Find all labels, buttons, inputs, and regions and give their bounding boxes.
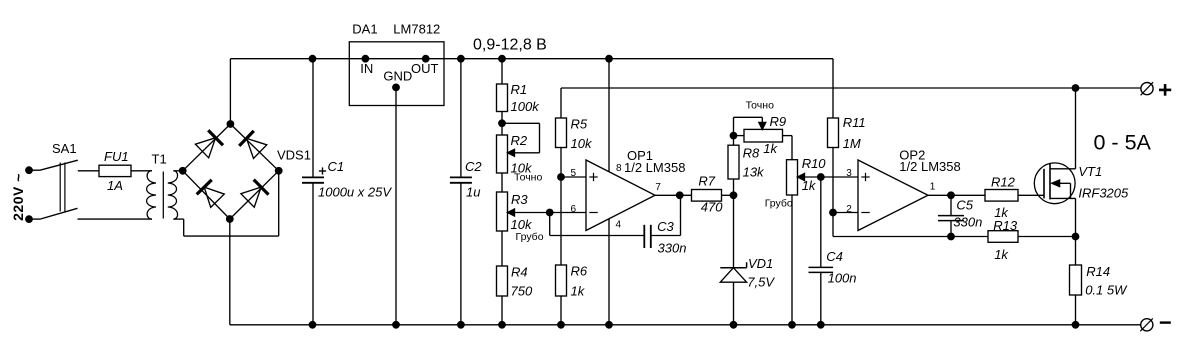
- node R4 bottom: [498, 321, 506, 329]
- op-amp OP2: [858, 160, 928, 231]
- svg-text:R8: R8: [743, 145, 760, 160]
- label R12: [991, 175, 1016, 190]
- pin 4: [616, 219, 622, 230]
- node R7 R8 junction: [730, 191, 738, 199]
- wire rail to R1: [501, 59, 503, 84]
- value 10k R2: [511, 160, 533, 175]
- wire bottom rail: [230, 324, 1141, 326]
- label output voltage: [473, 37, 547, 54]
- svg-text:0 - 5A: 0 - 5A: [1094, 131, 1152, 155]
- resistor R14: [1070, 265, 1082, 295]
- label FU1: [104, 149, 129, 164]
- svg-text:100k: 100k: [511, 99, 541, 114]
- label R1: [511, 82, 528, 97]
- svg-text:C3: C3: [657, 219, 674, 234]
- pin OUT: [411, 55, 439, 76]
- svg-text:5: 5: [571, 168, 577, 179]
- terminal plus: [1141, 82, 1172, 96]
- svg-text:13k: 13k: [743, 165, 765, 180]
- node R8 R9 junction: [730, 132, 738, 140]
- label C4: [826, 249, 843, 264]
- label minus OP2: [861, 212, 869, 214]
- label VT1: [1078, 164, 1102, 179]
- value 1000u x 25V: [318, 184, 392, 199]
- label OP2 half LM358: [899, 159, 960, 174]
- svg-text:750: 750: [511, 283, 533, 298]
- label OP1: [627, 148, 653, 163]
- wire R8 leads: [733, 117, 735, 195]
- svg-text:10k: 10k: [571, 136, 593, 151]
- svg-text:7,5V: 7,5V: [747, 274, 775, 289]
- svg-text:1000u x 25V: 1000u x 25V: [318, 184, 392, 199]
- value 1u: [466, 184, 480, 199]
- op-amp U1 LM7812 box: [349, 42, 444, 106]
- node C1 top: [309, 55, 317, 63]
- diode bridge top-left: [195, 130, 223, 158]
- svg-text:Грубо: Грубо: [516, 231, 544, 243]
- capacitor C5: [938, 195, 964, 236]
- pin IN: [360, 55, 373, 76]
- transistor VT1: [1034, 163, 1075, 204]
- node C4 bottom: [817, 321, 825, 329]
- svg-text:C2: C2: [465, 159, 482, 174]
- wire fuse to transformer: [131, 170, 152, 172]
- label R7: [698, 173, 715, 188]
- label C3: [657, 219, 674, 234]
- value 7,5V: [747, 274, 775, 289]
- node OP2 output: [947, 191, 955, 199]
- value 1M: [843, 136, 861, 151]
- svg-text:R7: R7: [698, 173, 715, 188]
- svg-text:IRF3205: IRF3205: [1078, 186, 1129, 201]
- resistor R7: [692, 190, 722, 202]
- label C1: [328, 159, 345, 174]
- wire OP2 output: [928, 194, 985, 196]
- wire R1 to R2: [501, 112, 503, 136]
- node R1 top: [498, 55, 506, 63]
- wire switch bottom to transformer: [78, 218, 153, 220]
- svg-text:1k: 1k: [763, 141, 778, 156]
- resistor R4: [497, 266, 508, 296]
- wire pin2: [833, 212, 858, 214]
- value 10k R5: [571, 136, 593, 151]
- svg-text:OUT: OUT: [411, 61, 439, 76]
- svg-text:R4: R4: [511, 265, 528, 280]
- potentiometer R3: [497, 192, 515, 231]
- wire R14 to rail: [1075, 295, 1077, 325]
- capacitor C1: [302, 59, 324, 325]
- svg-text:IN: IN: [360, 61, 373, 76]
- label R4: [511, 265, 528, 280]
- svg-text:3: 3: [846, 168, 852, 179]
- label R9: [770, 114, 787, 129]
- svg-text:VD1: VD1: [748, 256, 773, 271]
- node pin4 bottom: [605, 321, 613, 329]
- value 0.1 5W: [1085, 282, 1128, 297]
- value 100n: [828, 270, 857, 285]
- value 1k R12: [994, 205, 1009, 220]
- value 330n C3: [658, 241, 687, 256]
- label OP2: [899, 148, 925, 163]
- svg-text:C5: C5: [956, 198, 973, 213]
- label T1: [152, 152, 167, 167]
- node OP1 output: [676, 191, 684, 199]
- label LM7812: [393, 22, 440, 37]
- label R2: [511, 133, 528, 148]
- node C2 bottom: [457, 321, 465, 329]
- wire R10 bottom to rail: [791, 195, 793, 325]
- wire R2 to R3: [501, 173, 503, 192]
- label R6: [571, 264, 588, 279]
- svg-text:1M: 1M: [843, 136, 861, 151]
- value IRF3205: [1078, 186, 1129, 201]
- transformer T1 primary: [147, 171, 156, 219]
- wire secondary bottom jog: [173, 219, 278, 236]
- node pin6 junction: [546, 209, 554, 217]
- label Tochno R2: [514, 172, 542, 184]
- resistor R8: [728, 145, 739, 179]
- svg-text:1u: 1u: [466, 184, 480, 199]
- capacitor C3: [644, 195, 680, 248]
- pin 8: [616, 163, 622, 174]
- wire VD1 to rail: [733, 282, 735, 325]
- value 100k: [511, 99, 541, 114]
- wire junction to VD1: [733, 195, 735, 267]
- svg-text:R11: R11: [843, 115, 866, 130]
- wire R3 wiper to pin6: [508, 212, 587, 214]
- value 1k R9: [763, 141, 778, 156]
- transformer T1 secondary: [168, 171, 178, 219]
- label DA1: [352, 22, 377, 37]
- wire OP1 output: [655, 194, 692, 196]
- svg-text:C1: C1: [328, 159, 345, 174]
- label Grubo R3: [516, 231, 544, 243]
- label Grubo R10: [765, 197, 793, 209]
- transformer T1 core: [162, 172, 164, 219]
- svg-text:1: 1: [930, 182, 936, 193]
- capacitor C2: [450, 59, 472, 325]
- label VDS1: [277, 148, 311, 163]
- label SA1: [52, 141, 77, 156]
- svg-text:8: 8: [616, 163, 622, 174]
- wire R11 to pin2 and feedback: [833, 148, 988, 237]
- terminal minus: [1140, 318, 1171, 331]
- resistor R5: [556, 118, 567, 148]
- wire R10 wiper to pin3: [805, 176, 859, 178]
- node GND bottom: [392, 321, 400, 329]
- node C5 bottom: [947, 233, 955, 241]
- wire R4 to rail: [501, 296, 503, 325]
- node mains terminal top: [25, 166, 33, 174]
- label output current: [1094, 131, 1152, 155]
- svg-text:1k: 1k: [994, 247, 1009, 262]
- node VD1 bottom: [730, 321, 738, 329]
- node bridge bottom: [226, 215, 234, 223]
- svg-text:Точно: Точно: [514, 172, 542, 184]
- wire drain to plus rail: [1075, 88, 1077, 169]
- wire R3 to R4: [501, 231, 503, 266]
- svg-text:1k: 1k: [571, 283, 586, 298]
- pin 8 wire: [608, 59, 610, 172]
- label R13: [993, 218, 1018, 233]
- node bridge top: [227, 120, 235, 128]
- svg-text:1/2 LM358: 1/2 LM358: [624, 160, 685, 175]
- node C1 bottom: [309, 321, 317, 329]
- capacitor C4: [809, 177, 834, 325]
- node bridge left: [179, 167, 187, 175]
- svg-text:R9: R9: [770, 114, 787, 129]
- wire source down: [1075, 198, 1077, 265]
- wire top rail: [230, 58, 833, 60]
- wire R12 to gate: [1018, 194, 1044, 196]
- node 220V mains input label: [10, 173, 26, 221]
- svg-text:R2: R2: [511, 133, 528, 148]
- svg-text:GND: GND: [383, 68, 412, 83]
- label C2: [465, 159, 482, 174]
- op-amp OP1: [586, 160, 655, 231]
- svg-text:10k: 10k: [511, 217, 533, 232]
- pin 6: [571, 204, 577, 215]
- svg-text:R12: R12: [991, 175, 1016, 190]
- pin 7: [655, 182, 661, 193]
- svg-text:FU1: FU1: [104, 149, 129, 164]
- wire R6 to rail: [560, 296, 562, 325]
- pin 2: [846, 204, 852, 215]
- diode bridge top-right: [239, 131, 267, 159]
- node pin5 junction: [557, 173, 565, 181]
- node pin2 junction: [829, 209, 837, 217]
- label R8: [743, 145, 760, 160]
- label R14: [1086, 264, 1110, 279]
- diode bridge bottom-left: [197, 180, 225, 208]
- node R14 bottom: [1072, 321, 1080, 329]
- node drain rail: [1072, 84, 1080, 92]
- wire bridge diagonal top-right: [230, 124, 278, 171]
- resistor R6: [556, 265, 567, 296]
- potentiometer R9: [734, 117, 783, 142]
- label OP1 half LM358: [624, 160, 685, 175]
- label R5: [571, 117, 588, 132]
- label C5: [956, 198, 973, 213]
- label C1 plus: [319, 167, 326, 174]
- svg-text:6: 6: [571, 204, 577, 215]
- wire GND to bottom rail: [395, 87, 397, 324]
- svg-text:2: 2: [846, 204, 852, 215]
- node bridge right: [275, 167, 283, 175]
- node source R13 R14: [1072, 233, 1080, 241]
- value 330n C5: [953, 215, 982, 230]
- svg-text:220V ~: 220V ~: [10, 173, 26, 221]
- wire switch to fuse: [78, 170, 99, 172]
- label VD1: [748, 256, 773, 271]
- label minus OP1: [589, 212, 597, 214]
- zener VD1: [720, 262, 746, 282]
- pin 4 wire: [608, 219, 610, 325]
- wire pin6 feedback L: [550, 213, 644, 236]
- wire bridge right down: [278, 171, 280, 236]
- label Tochno R9: [746, 100, 774, 112]
- svg-text:4: 4: [616, 219, 622, 230]
- node R6 bottom: [557, 321, 565, 329]
- svg-text:R10: R10: [802, 156, 827, 171]
- potentiometer R10: [787, 160, 805, 195]
- wire output feedback rail: [561, 87, 1140, 89]
- svg-text:R6: R6: [571, 264, 588, 279]
- value 10k R3: [511, 217, 533, 232]
- value 13k: [743, 165, 765, 180]
- label R11: [843, 115, 866, 130]
- wire pin5: [561, 176, 586, 178]
- svg-text:330n: 330n: [953, 215, 982, 230]
- pin GND: [383, 68, 412, 91]
- svg-text:R14: R14: [1086, 264, 1110, 279]
- svg-text:330n: 330n: [658, 241, 687, 256]
- svg-text:1A: 1A: [107, 178, 123, 193]
- value 1k R10: [802, 178, 817, 193]
- wire R5 to R6: [560, 148, 562, 266]
- pin 3: [846, 168, 852, 179]
- value 1A: [107, 178, 123, 193]
- svg-text:VDS1: VDS1: [277, 148, 311, 163]
- resistor R1: [497, 84, 508, 112]
- wire bridge top to rail: [229, 59, 231, 124]
- node R1 R2 junction: [498, 119, 506, 127]
- potentiometer R2: [497, 123, 540, 173]
- value 1k R13: [994, 247, 1009, 262]
- svg-text:100n: 100n: [828, 270, 857, 285]
- diode bridge bottom-right: [241, 180, 269, 208]
- svg-text:DA1: DA1: [352, 22, 377, 37]
- label R10: [802, 156, 827, 171]
- wire R7 to junction: [722, 194, 734, 196]
- wire R5 top: [560, 88, 562, 118]
- svg-text:R1: R1: [511, 82, 528, 97]
- resistor R13: [988, 231, 1018, 243]
- label plus OP1: [589, 173, 597, 181]
- wire bridge diagonal left-bottom: [183, 171, 230, 219]
- node mains terminal bottom: [25, 215, 33, 223]
- node R10 bottom: [788, 321, 796, 329]
- pin 5: [571, 168, 577, 179]
- pin 1: [930, 182, 936, 193]
- wire rail to R11: [832, 59, 834, 118]
- switch SA1: [29, 160, 78, 219]
- resistor R12: [985, 190, 1018, 202]
- svg-text:LM7812: LM7812: [393, 22, 440, 37]
- svg-text:Точно: Точно: [746, 100, 774, 112]
- wire bridge diagonal left-top: [183, 124, 231, 171]
- svg-text:T1: T1: [152, 152, 167, 167]
- resistor R11: [828, 118, 839, 148]
- svg-text:Грубо: Грубо: [765, 197, 793, 209]
- node pin3 junction: [817, 173, 825, 181]
- wire R13 to source node: [1018, 236, 1076, 238]
- wire secondary top to bridge: [173, 170, 182, 172]
- node C2 top: [457, 55, 465, 63]
- label plus OP2: [861, 173, 869, 181]
- svg-text:VT1: VT1: [1078, 164, 1102, 179]
- node pin8 rail: [605, 55, 613, 63]
- value 1k R6: [571, 283, 586, 298]
- svg-text:R13: R13: [993, 218, 1018, 233]
- wire bridge bottom to rail: [229, 219, 231, 325]
- svg-text:1/2 LM358: 1/2 LM358: [899, 159, 960, 174]
- wire R9 to R10: [783, 136, 793, 160]
- svg-text:470: 470: [701, 199, 723, 214]
- wire bridge diagonal bottom-right: [230, 171, 279, 219]
- value 750: [511, 283, 533, 298]
- svg-text:1k: 1k: [802, 178, 817, 193]
- svg-text:R3: R3: [511, 192, 528, 207]
- svg-text:C4: C4: [826, 249, 843, 264]
- value 470: [701, 199, 723, 214]
- svg-text:R5: R5: [571, 117, 588, 132]
- svg-text:0.1 5W: 0.1 5W: [1085, 282, 1128, 297]
- fuse FU1: [99, 165, 131, 176]
- svg-text:7: 7: [655, 182, 661, 193]
- label R3: [511, 192, 528, 207]
- svg-text:SA1: SA1: [52, 141, 77, 156]
- svg-text:0,9-12,8 В: 0,9-12,8 В: [473, 37, 547, 54]
